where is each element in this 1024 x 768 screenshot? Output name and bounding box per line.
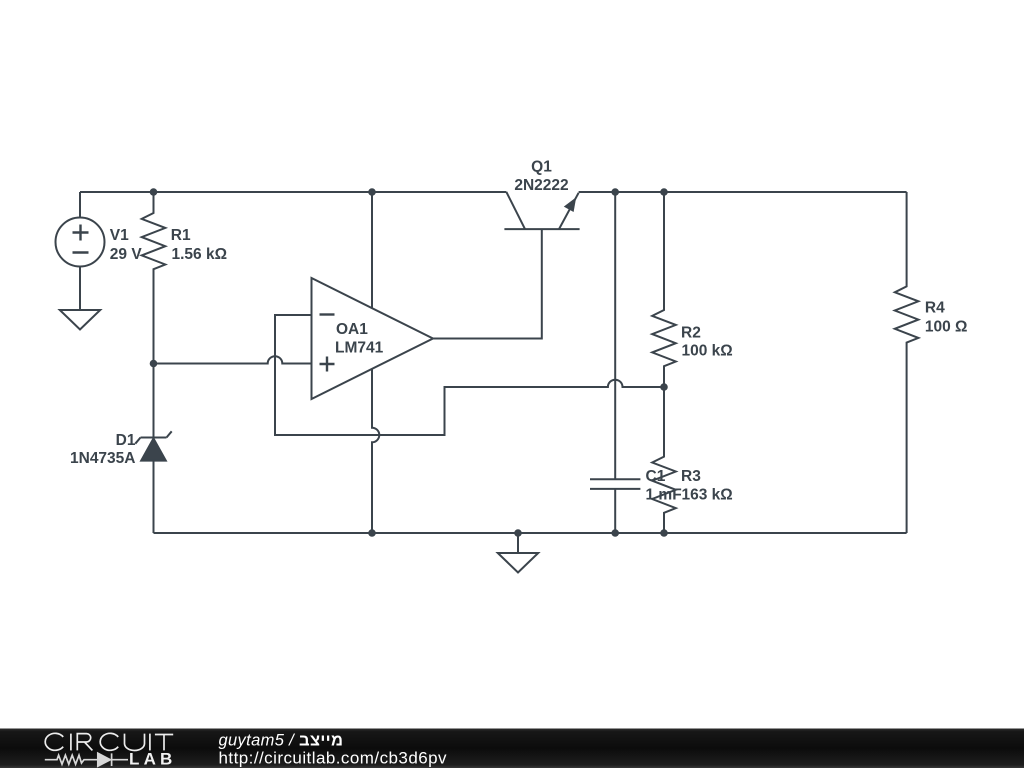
wire V1 top lead [79,192,81,218]
svg-text:D1: D1 [116,432,136,449]
svg-text:Q1: Q1 [531,159,552,176]
ground (bottom rail) [498,553,538,573]
transistor Q1 [504,228,579,230]
diode D1 zener [135,431,171,443]
svg-text:R3: R3 [681,468,701,485]
op-amp U1 triangle [312,278,434,399]
node D: top rail / V+ junction [368,188,376,196]
svg-text:V1: V1 [110,227,129,244]
svg-text:2N2222: 2N2222 [514,177,568,194]
wire D1 to bottom rail [153,461,155,533]
capacitor C1 [590,192,640,533]
wire V1 bottom lead [79,267,81,311]
resistor R2 [652,192,676,387]
svg-text:R2: R2 [681,325,701,342]
svg-text:OA1: OA1 [336,321,368,338]
svg-text:29 V: 29 V [110,246,143,263]
resistor R4 [895,192,919,533]
svg-text:R4: R4 [925,300,945,317]
node E: V- / bottom rail junction [368,529,376,537]
node H: bottom rail / C1 junction [611,529,619,537]
resistor R3 [652,387,676,533]
node A: top rail / R1 junction [150,188,158,196]
node J: bottom rail / ground junction [514,529,522,537]
svg-text:LAB: LAB [129,750,177,768]
wire op-amp V+ supply [371,192,373,308]
logo CIRCUIT wordmark [45,733,173,750]
wire bottom rail [154,532,907,534]
op-amp minus pin glyph [320,313,335,315]
ground (under V1) [60,310,100,330]
svg-text:C1: C1 [646,468,666,485]
resistor R1 [142,192,166,438]
op-amp plus pin glyph [320,357,335,372]
svg-text:R1: R1 [171,227,191,244]
svg-text:100 Ω: 100 Ω [925,318,968,335]
svg-text:100 kΩ: 100 kΩ [682,343,733,360]
node I: bottom rail / R3 junction [660,529,668,537]
wire op-amp V- to ground rail with hop [372,369,379,533]
logo squiggle resistor and diode [45,753,128,766]
svg-text:1 mF: 1 mF [646,487,682,504]
svg-text:1N4735A: 1N4735A [70,450,136,467]
wire ground stub [517,533,519,553]
node F: top rail / C1 junction [611,188,619,196]
svg-text:163 kΩ: 163 kΩ [682,487,733,504]
svg-text:guytam5 / מייצב: guytam5 / מייצב [219,731,344,749]
wire +input with hop [154,356,312,363]
svg-text:1.56 kΩ: 1.56 kΩ [172,246,228,263]
wire top rail left [80,191,506,193]
node G: top rail / R2 junction [660,188,668,196]
svg-text:http://circuitlab.com/cb3d6pv: http://circuitlab.com/cb3d6pv [219,749,448,768]
voltage source V1 [56,218,105,267]
node B: R1 / +input junction [150,360,158,368]
wire top rail right [579,191,907,193]
footer bar [0,729,1024,768]
svg-text:LM741: LM741 [335,340,384,357]
wire -input feedback loop with hop [275,315,664,435]
node C: feedback / R2-R3 junction [660,383,668,391]
wire op-amp output to Q1 base [433,229,542,338]
